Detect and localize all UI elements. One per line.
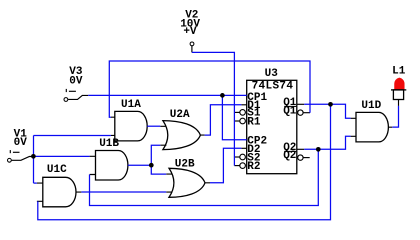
junction U1B output — [149, 163, 154, 168]
wire Q1 output run — [304, 104, 350, 118]
wire V1 node vertical — [33, 136, 35, 184]
wire U1A output to U2A input — [147, 125, 160, 127]
U3 pin Q1bar bubble and stub — [303, 112, 310, 114]
U3 pin Q2 stub — [297, 148, 304, 150]
U3 pin R2 bubble and stub — [234, 165, 239, 167]
wire U1C output to U2B lower input — [81, 191, 166, 193]
U3 pin S2 bubble and stub — [234, 156, 239, 158]
U3 pin Q1bar label with overline — [283, 105, 297, 117]
AND gate U1B — [96, 151, 128, 181]
U3 pin D1 stub — [241, 104, 246, 106]
OR gate U2B — [169, 168, 205, 197]
svg-text:U1D: U1D — [361, 100, 381, 112]
IC U3 74LS74 body — [247, 80, 297, 173]
U3 pin R1 bubble and stub — [234, 120, 239, 122]
wire V1 to U1C upper input — [34, 182, 37, 184]
svg-text:R2: R2 — [247, 161, 260, 173]
lamp L1 socket — [391, 90, 406, 106]
svg-text:0V: 0V — [69, 76, 83, 88]
svg-text:+V: +V — [183, 26, 197, 38]
svg-text:R1: R1 — [247, 117, 261, 129]
AND gate U1A — [115, 111, 147, 140]
AND gate U1C — [43, 177, 76, 207]
OR gate U2A stubs — [160, 126, 204, 145]
U3 pin Q1 stub — [297, 103, 304, 105]
svg-text:74LS74: 74LS74 — [252, 81, 294, 93]
wire U1D output to L1 — [392, 106, 398, 127]
switch V1 symbol — [7, 150, 33, 162]
lamp L1 bulb — [395, 78, 405, 90]
wire U1B output node riser — [128, 164, 151, 166]
wire Q2 feedback to U1B lower input — [90, 149, 319, 205]
switch V3 symbol — [64, 89, 88, 102]
wire node to U2B upper input — [151, 165, 166, 174]
wire Q1bar feedback to U1A upper input — [109, 61, 310, 117]
U3 pin D2 stub — [241, 147, 246, 149]
U3 pin S1 bubble and stub — [234, 111, 239, 113]
svg-text:U3: U3 — [265, 68, 279, 80]
svg-text:0V: 0V — [14, 137, 28, 149]
wire V3 to CP1 — [88, 94, 247, 96]
wire V3 branch to CP2 — [222, 95, 246, 139]
U3 pin Q2bar label with overline — [283, 150, 296, 162]
junction Q2 node — [316, 147, 321, 152]
AND gate U1A input stubs — [111, 117, 115, 135]
svg-text:U1A: U1A — [121, 99, 141, 111]
wire Q2 output run — [304, 136, 350, 149]
wire U2A output to D1 — [205, 105, 242, 135]
svg-text:L1: L1 — [392, 65, 406, 77]
OR gate U2A — [163, 121, 201, 150]
svg-text:U1B: U1B — [99, 138, 119, 150]
OR gate U2B stubs — [166, 174, 210, 192]
wire V1 to U1B upper input — [34, 155, 90, 157]
AND gate U1B input stubs — [90, 156, 96, 174]
switch V3 labels — [69, 66, 83, 87]
junction V1 node — [31, 154, 36, 159]
wire node to U2A lower input — [151, 145, 160, 165]
AND gate U1D stubs — [351, 118, 393, 136]
svg-text:Q1: Q1 — [283, 105, 297, 117]
AND gate U1D — [356, 112, 388, 141]
AND gate U1C stubs — [37, 183, 82, 201]
wire Q1 feedback to U1C lower input — [38, 104, 331, 220]
wire V1 to U1A lower input — [34, 135, 111, 137]
wire V2 to U3 set/reset pins — [192, 52, 235, 165]
power source V2 labels — [180, 10, 200, 39]
junction Q1 node — [328, 102, 333, 107]
junction V3/CP2 — [220, 93, 225, 98]
switch V1 labels — [14, 129, 28, 149]
svg-text:U2A: U2A — [170, 109, 190, 121]
U3 pin Q2bar bubble and stub — [303, 157, 310, 159]
power source V2 terminal — [190, 42, 194, 52]
svg-text:U1C: U1C — [47, 164, 67, 176]
wire U2B output to D2 — [210, 148, 241, 183]
